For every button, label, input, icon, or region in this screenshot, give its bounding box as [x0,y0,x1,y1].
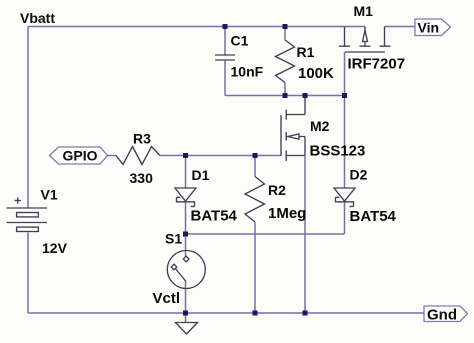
svg-text:Vbatt: Vbatt [20,10,55,26]
wire y234 run [186,233,345,235]
svg-text:10nF: 10nF [231,64,264,80]
svg-text:12V: 12V [42,240,68,256]
wire M1 gate drop [344,52,346,96]
wire R1 top leg [284,27,286,41]
net flag GPIO [50,147,108,164]
wire D1 top leg [185,156,187,189]
svg-text:330: 330 [130,170,154,186]
switch S1 [167,251,205,289]
junction R1 top [283,24,288,29]
svg-text:1Meg: 1Meg [268,205,306,222]
wire D2 bottom leg [344,202,346,234]
wire M1 drain to Vin [385,26,416,28]
svg-text:IRF7207: IRF7207 [348,56,406,73]
svg-text:R3: R3 [133,131,151,147]
wire C1 bottom leg [224,60,226,96]
transistor M1 PMOS IRF7207 [339,27,391,53]
svg-text:GPIO: GPIO [63,148,98,164]
svg-text:BAT54: BAT54 [350,208,397,225]
wire top rail Vbatt [28,26,365,28]
junction C1 top [223,24,228,29]
wire mid rail y95 [225,95,345,97]
wire D1 bottom leg [185,202,187,234]
wire left rail lower [27,233,29,314]
wire R3 to M2 gate [160,155,281,157]
wire R2 top leg [254,156,256,177]
wire bottom rail [28,312,424,314]
ground [176,323,198,335]
resistor R3 [116,147,160,165]
junction R2 top [253,153,258,158]
junction R1 bottom [283,93,288,98]
svg-text:S1: S1 [165,231,182,247]
diode D1 BAT54 [175,188,196,207]
wire ground stub [185,313,187,323]
junction M2 source bottom [303,311,308,316]
svg-text:BAT54: BAT54 [191,208,238,225]
wire R2 bottom leg [254,222,256,313]
svg-text:Vin: Vin [418,20,440,36]
svg-text:R2: R2 [268,182,286,198]
svg-text:M1: M1 [354,3,374,19]
svg-text:M2: M2 [310,118,330,134]
junction M1 gate / D2 [342,93,347,98]
wire left rail [27,27,29,208]
junction S1 top [183,232,188,237]
wire R1 bottom leg [284,83,286,96]
transistor M2 NMOS BSS123 [281,110,305,161]
wire S1 top leg [185,234,187,257]
svg-text:Gnd: Gnd [427,307,457,324]
net flag Gnd [424,306,468,322]
battery V1 [7,197,48,231]
wire GPIO to R3 [108,155,117,157]
wire M2 source down [304,156,306,314]
svg-text:V1: V1 [41,187,58,203]
capacitor C1 [215,55,235,60]
wire D2 top leg [344,96,346,189]
svg-text:C1: C1 [231,33,249,49]
svg-text:BSS123: BSS123 [310,143,366,160]
net flag Vin [415,19,451,36]
resistor R2 [245,177,265,223]
svg-text:100K: 100K [298,65,334,82]
diode D2 BAT54 [334,188,355,207]
resistor R1 [276,40,295,83]
junction R3 D1 [183,153,188,158]
junction M2 drain [303,93,308,98]
wire C1 top leg [224,27,226,56]
wire S1 bottom leg [185,281,187,313]
svg-text:R1: R1 [297,44,315,60]
junction ground node [183,311,188,316]
svg-text:Vctl: Vctl [153,290,181,307]
svg-text:D1: D1 [192,167,210,183]
junction R2 bottom [253,311,258,316]
wire M2 drain to mid rail [304,97,306,115]
svg-text:D2: D2 [350,167,368,183]
